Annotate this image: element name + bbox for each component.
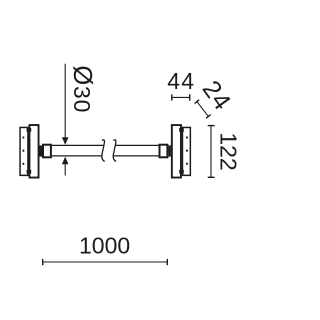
svg-text:44: 44 <box>167 68 195 94</box>
svg-text:122: 122 <box>216 132 242 170</box>
svg-text:1000: 1000 <box>79 233 130 259</box>
svg-text:Ø30: Ø30 <box>68 65 96 113</box>
